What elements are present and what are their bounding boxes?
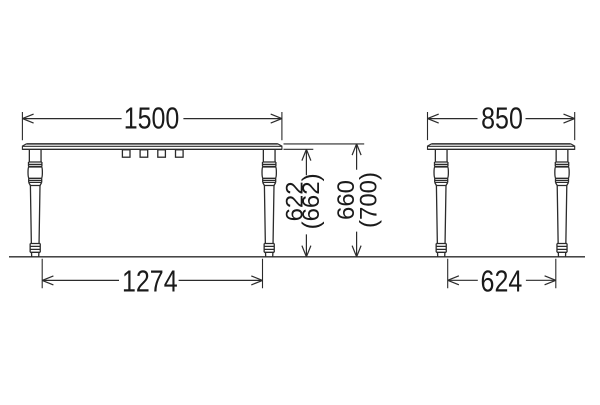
knob 3 — [158, 150, 166, 157]
floor line — [9, 256, 585, 258]
side left leg — [434, 149, 448, 257]
vertical dim line 622 — [302, 149, 311, 256]
arrow left — [22, 114, 33, 123]
svg-text:850: 850 — [481, 101, 523, 135]
svg-text:(700): (700) — [355, 172, 382, 228]
front right leg — [262, 149, 276, 257]
vertical dim line 660 — [352, 144, 361, 257]
ext line from tabletop underside — [284, 148, 314, 150]
knob 2 — [140, 150, 148, 157]
ext lines — [22, 112, 282, 140]
dim line segments — [22, 118, 282, 120]
tabletop front — [22, 144, 282, 150]
front left leg — [28, 149, 42, 257]
svg-text:(662): (662) — [298, 173, 325, 229]
arrow right — [271, 114, 282, 123]
side right leg — [555, 149, 569, 257]
ext line from tabletop top surface — [284, 143, 365, 145]
knob 1 — [122, 150, 130, 157]
knob 4 — [176, 150, 184, 157]
svg-text:1500: 1500 — [124, 101, 180, 135]
svg-text:1274: 1274 — [122, 264, 178, 298]
tabletop side — [428, 144, 575, 150]
svg-text:624: 624 — [481, 264, 523, 298]
